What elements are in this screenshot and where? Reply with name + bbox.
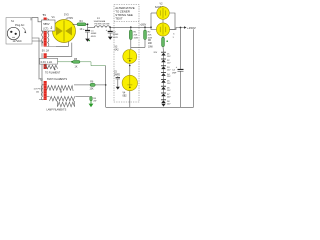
svg-text:(CT): (CT)	[43, 28, 48, 31]
capacitor C1	[83, 27, 90, 38]
svg-text:TEXT: TEXT	[115, 16, 123, 20]
svg-text:1K: 1K	[75, 66, 78, 69]
wire plug to T1 primary top	[32, 18, 44, 22]
resistor R6	[162, 37, 165, 52]
T2 secondary winding A	[47, 86, 73, 91]
series tube loop wires	[151, 13, 156, 30]
output feed vertical	[180, 28, 182, 70]
winding A tap arrow	[60, 89, 62, 93]
node R1	[130, 26, 132, 28]
diode D3	[161, 66, 166, 73]
node output	[180, 27, 182, 29]
svg-text:+150V: +150V	[187, 26, 196, 30]
svg-text:+165V: +165V	[140, 25, 147, 27]
junction dot	[71, 61, 73, 63]
wire winding B to R8	[75, 95, 90, 97]
diode D8	[161, 100, 166, 103]
svg-text:V1: V1	[52, 15, 56, 19]
wire plug to AC verticals	[32, 38, 39, 80]
switch tick S1	[30, 18, 32, 21]
right return vertical	[193, 29, 195, 107]
green ground arrow	[89, 101, 94, 107]
rectifier V1 envelope	[53, 20, 76, 43]
resistor R4	[77, 23, 86, 26]
wire R4 to C1 node	[86, 24, 88, 27]
V1 plate left	[56, 27, 63, 36]
T2 secondary winding B	[47, 96, 75, 101]
svg-text:FILTER CHOKE: FILTER CHOKE	[95, 24, 111, 26]
svg-text:6.3V, 1.2A: 6.3V, 1.2A	[41, 61, 53, 64]
transformer T2 primary winding	[39, 85, 44, 100]
svg-text:6SN7 FILAMENTS: 6SN7 FILAMENTS	[47, 78, 67, 81]
node R2	[144, 26, 146, 28]
filament wire upper	[47, 42, 69, 47]
svg-text:20V: 20V	[154, 52, 158, 54]
diode D6	[161, 86, 166, 93]
node green R6	[166, 40, 168, 42]
transformer T1 primary winding	[42, 22, 43, 45]
T1 6.3V winding	[44, 65, 58, 69]
T2 lamp winding	[58, 101, 75, 107]
capacitor C5	[116, 76, 120, 87]
svg-text:T1: T1	[43, 13, 47, 17]
node	[129, 65, 131, 67]
plug enclosure box	[6, 18, 32, 44]
diode D2	[161, 59, 166, 66]
svg-text:450V: 450V	[91, 36, 97, 38]
choke L1	[94, 26, 110, 28]
svg-text:0B2: 0B2	[123, 96, 128, 98]
node C2	[109, 26, 111, 28]
svg-text:117VAC: 117VAC	[13, 39, 22, 43]
svg-text:15K: 15K	[90, 89, 95, 91]
capacitor C2	[106, 27, 113, 36]
svg-text:20K: 20K	[148, 43, 153, 45]
svg-text:0A2: 0A2	[115, 48, 120, 51]
ground arrow zener string	[161, 104, 165, 107]
gas tube V3	[123, 50, 137, 64]
wire	[32, 41, 42, 96]
svg-text:585V: 585V	[43, 22, 49, 26]
zener labels	[167, 53, 171, 105]
dashed divider	[114, 21, 139, 23]
resistor R5	[73, 61, 81, 64]
filament return wire lower	[47, 43, 72, 57]
svg-text:1MFD: 1MFD	[114, 75, 121, 77]
node series loop	[150, 26, 152, 28]
resistor R1	[129, 27, 132, 47]
resistor R2	[144, 27, 147, 47]
ground arrow C2	[108, 37, 113, 40]
svg-text:5Y3: 5Y3	[64, 13, 69, 17]
capacitor C4	[176, 66, 184, 71]
AC plug P1	[7, 27, 19, 39]
svg-text:Plug AC: Plug AC	[15, 23, 24, 27]
diode D4	[161, 73, 166, 80]
node C1 junction	[87, 23, 89, 25]
resistor R8	[90, 96, 92, 100]
filament bus wire	[80, 62, 106, 66]
svg-text:10W: 10W	[148, 46, 154, 48]
svg-text:5V, 2A: 5V, 2A	[42, 50, 50, 53]
transformer T1 core	[44, 18, 47, 70]
V1 cathode line	[63, 21, 65, 42]
svg-text:20K: 20K	[148, 34, 152, 36]
svg-text:LAMP FILAMENTS: LAMP FILAMENTS	[47, 108, 67, 111]
wire to choke	[88, 26, 96, 28]
arrow to plug	[23, 28, 26, 33]
output arrow	[184, 26, 187, 28]
wire V2b cathode to R6	[162, 36, 164, 37]
series tube V2a	[157, 7, 170, 20]
main B+ rail	[110, 26, 151, 28]
dashed alternative box	[114, 5, 139, 103]
label box 585V (CT)	[42, 20, 56, 31]
wire V2b to output	[170, 28, 184, 30]
zener string D1-D8	[161, 52, 166, 103]
svg-text:TO FILAMENT: TO FILAMENT	[45, 72, 61, 75]
series tube V2b	[156, 23, 169, 36]
B+ wire from V1 plate	[73, 23, 78, 25]
wire R7 to vertical	[95, 84, 106, 86]
label box 6.3V 1.2A	[40, 58, 58, 64]
ground arrow C5	[116, 87, 120, 90]
svg-text:450V: 450V	[113, 37, 119, 39]
diode D1	[161, 52, 166, 59]
transformer T1 HV secondary winding	[48, 19, 49, 48]
resistor R7	[90, 83, 95, 86]
wire regulator feed	[131, 47, 145, 49]
diode D7	[161, 93, 166, 100]
diode D5	[161, 79, 166, 86]
svg-text:20K: 20K	[134, 34, 138, 36]
center tap arrow	[54, 67, 56, 71]
label 5V 2A	[41, 47, 56, 54]
wire V3 to V4	[129, 64, 131, 76]
wire V4 to bus	[129, 91, 131, 107]
node green	[89, 40, 90, 41]
junction node	[105, 84, 107, 86]
ground arrow C1	[85, 39, 90, 42]
svg-text:40MF: 40MF	[91, 33, 97, 35]
gas tube V4	[122, 75, 137, 90]
wire winding A to R7	[74, 84, 90, 86]
svg-text:2MF: 2MF	[172, 72, 177, 74]
bottom bus	[106, 106, 194, 108]
V1 plate right	[65, 27, 72, 36]
wire C4 to bus	[180, 71, 182, 107]
svg-text:+370V: +370V	[66, 16, 74, 20]
svg-text:2W: 2W	[93, 101, 96, 103]
transformer T2 core	[44, 81, 47, 100]
wire 6.3V to R5	[58, 61, 73, 63]
svg-text:10H/200MA: 10H/200MA	[94, 20, 106, 23]
